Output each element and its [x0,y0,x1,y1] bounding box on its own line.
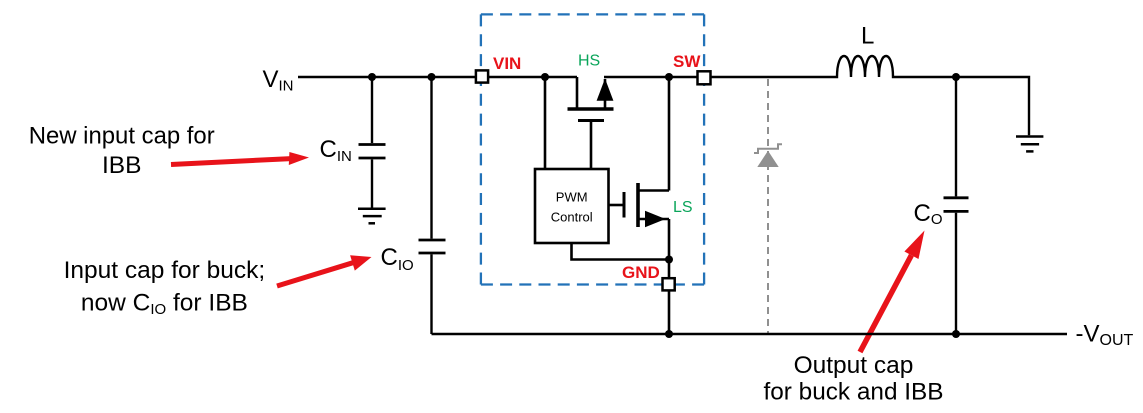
PWM control block U1 [535,169,609,243]
annotation arrow to CIN [171,152,309,165]
svg-text:SW: SW [673,52,701,71]
svg-text:for buck and IBB: for buck and IBB [764,378,944,405]
annotation: Output cap for buck and IBB [764,352,944,405]
wire PWM control to GND node [572,243,670,260]
wire top rail left (VIN to HS drain) [298,76,577,78]
annotation: New input cap for IBB [29,123,215,179]
wire LS source down to GND node [668,219,671,260]
svg-text:New input cap for: New input cap for [29,123,215,150]
svg-text:Input cap for buck;: Input cap for buck; [64,257,266,284]
wire LS drain to SW node [668,77,671,191]
svg-text:GND: GND [622,263,660,282]
svg-text:VIN: VIN [493,54,521,73]
ground (output, top right) [1016,137,1043,152]
wire VIN node to PWM control [544,77,547,169]
terminal GND (pin) [663,278,675,290]
capacitor CO [944,77,969,334]
ground (CIN) [358,209,386,224]
svg-text:Control: Control [551,210,593,225]
junction top rail at CO [952,73,960,81]
diode D (grayed out, not populated) [754,79,782,334]
capacitor CIN [359,77,386,208]
wire top rail right (HS source to output ground corner) + inductor body path [604,56,1029,135]
svg-text:L: L [861,23,874,50]
wire GND node to bottom rail [668,260,671,335]
annotation: Input cap for buck; now CIO for IBB [64,257,266,318]
svg-text:IBB: IBB [102,152,142,179]
transistor HS [568,77,614,169]
IC boundary (dashed box) [481,14,704,284]
junction bottom rail at CO [952,330,960,338]
wire bottom rail (-VOUT) [432,333,1068,335]
terminal SW (pin) [698,71,711,84]
svg-text:Output cap: Output cap [794,352,914,379]
svg-text:LS: LS [673,199,693,216]
junction top rail at CIN [368,73,376,81]
svg-text:PWM: PWM [556,190,588,205]
svg-text:HS: HS [578,53,600,70]
terminal VIN (pin) [476,70,488,82]
junction SW node [665,73,673,81]
annotation arrow to CO [860,231,925,353]
junction top rail at CIO [428,73,436,81]
capacitor CIO [419,77,446,334]
transistor LS [609,183,670,227]
annotation arrow to CIO [277,255,372,286]
junction bottom rail at GND branch [665,330,673,338]
junction GND node [665,256,673,264]
junction top rail at PWM feed [541,73,549,81]
